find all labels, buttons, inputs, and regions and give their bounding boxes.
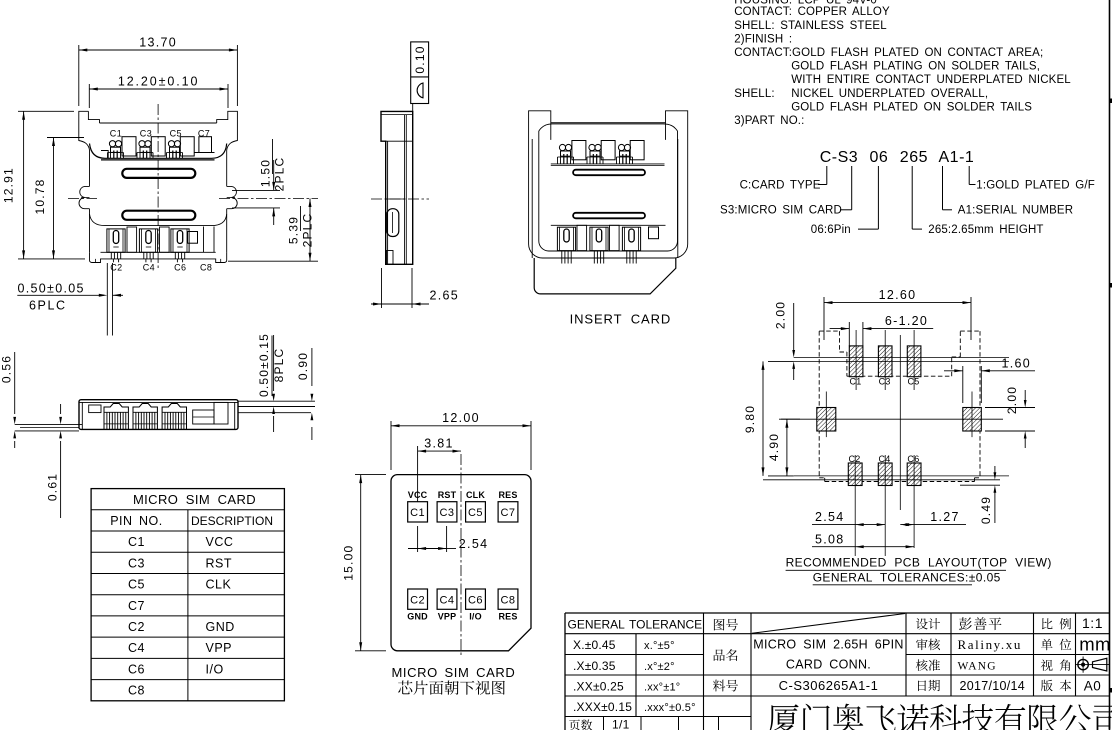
svg-text:C1: C1 [128,535,145,549]
svg-text:12.00: 12.00 [442,411,480,425]
part number leader 06 [858,166,878,229]
dimension 0.90 [296,348,313,440]
svg-text:C3: C3 [439,507,454,519]
text designer [959,617,1001,630]
svg-text:.xxx°±0.5°: .xxx°±0.5° [644,702,696,714]
insert view slot 2 [573,213,645,219]
svg-text:2017/10/14: 2017/10/14 [960,679,1026,693]
dimension 0.49 (pcb) [960,466,1000,524]
svg-text:C1: C1 [850,376,862,386]
svg-text:C2: C2 [849,454,861,464]
svg-text:C8: C8 [200,263,212,273]
label liaohao [713,680,738,692]
svg-text:2.54: 2.54 [815,510,845,524]
svg-text:0.50±0.05: 0.50±0.05 [18,281,85,295]
svg-text:12.20±0.10: 12.20±0.10 [118,75,199,89]
svg-text:6-1.20: 6-1.20 [885,314,928,328]
svg-text:C-S3: C-S3 [820,149,858,166]
svg-text:1/1: 1/1 [612,718,630,730]
dimension 13.70 [79,36,238,107]
part number leader C [818,166,827,185]
svg-text:RST: RST [206,556,233,570]
top view contact C4 [139,229,157,262]
svg-text:265:2.65mm HEIGHT: 265:2.65mm HEIGHT [928,224,1043,236]
label banben [1041,680,1071,692]
svg-text:.x°±2°: .x°±2° [644,661,675,673]
label shenhe [916,639,940,651]
svg-text:3.81: 3.81 [424,437,454,451]
sim card top pads [408,490,518,522]
top view contact C1 [108,141,124,159]
top view housing tab 1 [122,137,136,156]
svg-text:C8: C8 [128,684,145,698]
svg-text:DESCRIPTION: DESCRIPTION [191,514,273,528]
label yeshu [569,719,592,730]
tolerance values [573,638,696,714]
svg-text:06: 06 [870,149,889,166]
top view housing tab 2 [151,137,165,156]
svg-text:VPP: VPP [438,612,457,622]
flatness spec frame [411,42,429,112]
pcb side pad right [963,408,982,432]
pcb pad C3 [878,346,892,386]
sim card outline [391,475,531,651]
top view housing inner edges [90,144,227,226]
svg-text:GND: GND [407,612,428,622]
company name [768,704,1112,730]
dimension 5.39 2PLC [228,199,318,262]
front view right solder tails [238,401,315,413]
dimension 15.00 [341,475,386,651]
svg-text:8PLC: 8PLC [272,348,286,383]
pcb pad C4 [878,454,892,486]
svg-text:CARD CONN.: CARD CONN. [786,658,871,672]
dimension 1.50 2PLC [232,139,287,225]
title block diagonal [752,614,905,634]
label tuhao [714,619,738,631]
svg-text:C3: C3 [128,556,145,570]
top view C8 notch [188,232,198,244]
pin description table [91,489,284,701]
sim card centerline [460,454,462,656]
specification text block [734,0,1071,127]
svg-text:I/O: I/O [206,663,224,677]
insert view contact row bottom 3 [622,227,640,263]
label shijiao [1041,659,1070,670]
dimension 0.56 [0,352,16,448]
svg-text:GOLD FLASH PLATING ON SOLDER T: GOLD FLASH PLATING ON SOLDER TAILS, [791,61,1040,73]
svg-text:C4: C4 [128,641,145,655]
svg-text:1.50: 1.50 [259,159,273,187]
svg-text:C2: C2 [410,595,425,607]
dimension 12.00 [391,411,531,470]
svg-text:1:1: 1:1 [1082,615,1103,631]
dimension 2.00 top left (pcb) [773,301,795,380]
svg-text:I/O: I/O [469,612,482,622]
svg-text:RES: RES [498,490,517,500]
svg-text:C3: C3 [140,128,152,138]
svg-text:S3:MICRO SIM CARD: S3:MICRO SIM CARD [720,204,842,216]
label pinming [714,649,738,661]
label riqi [918,680,940,691]
svg-text:C5: C5 [908,376,920,386]
top view vertical centerline [157,104,159,268]
pcb pad C5 [907,346,921,386]
svg-text:x.°±5°: x.°±5° [644,640,675,652]
dimension 3.81 [418,437,461,502]
insert view contact row top 1 [558,144,574,164]
svg-text:GENERAL TOLERANCE: GENERAL TOLERANCE [568,618,703,632]
top view bottom rib 1 [127,227,137,252]
svg-text:12.91: 12.91 [2,167,16,203]
svg-text:265: 265 [900,149,928,166]
svg-text:SHELL:: SHELL: [734,88,775,100]
svg-text:2PLC: 2PLC [273,157,287,192]
top view horizontal centerline [68,198,318,200]
svg-text:MICRO SIM CARD: MICRO SIM CARD [133,492,256,507]
pcb horizontal centerline [779,418,1003,420]
insert view contact row top 2 [587,144,603,164]
svg-text:C4: C4 [439,595,454,607]
label sheji [916,618,940,629]
dimension 0.50±0.15 8PLC [257,333,286,432]
svg-text:2.00: 2.00 [1005,386,1019,414]
top view contact C6 [171,229,189,262]
svg-text:A1-1: A1-1 [939,149,975,166]
svg-text:C5: C5 [170,128,182,138]
svg-text:1.60: 1.60 [1002,357,1032,371]
svg-text:2)FINISH :: 2)FINISH : [734,33,792,45]
svg-text:GENERAL TOLERANCES:±0.05: GENERAL TOLERANCES:±0.05 [813,571,1001,585]
title block grid [565,613,1110,730]
svg-text:5.39: 5.39 [287,216,301,244]
sheet border line [1109,0,1111,730]
svg-text:2.65: 2.65 [430,289,460,303]
pcb pad C1 [849,346,863,386]
svg-text:MICRO SIM CARD: MICRO SIM CARD [392,665,516,680]
svg-text:VPP: VPP [206,641,233,655]
svg-text:2PLC: 2PLC [301,213,315,248]
svg-text:3)PART NO.:: 3)PART NO.: [734,115,804,127]
top view housing tab 3 [180,137,194,156]
svg-text:C8: C8 [500,595,515,607]
svg-text:WANG: WANG [958,661,997,673]
svg-text:C5: C5 [128,578,145,592]
svg-text:2.54: 2.54 [459,537,489,551]
svg-text:MICRO SIM 2.65H 6PIN: MICRO SIM 2.65H 6PIN [753,638,903,652]
svg-text:10.78: 10.78 [33,178,47,214]
svg-text:13.70: 13.70 [139,36,177,50]
dimension 2.54 (sim) [408,526,488,552]
top view C7 pad step [194,137,214,153]
top view left step [101,151,108,159]
svg-text:06:6Pin: 06:6Pin [811,224,851,236]
top view shell outline [79,111,238,262]
svg-text:WITH ENTIRE CONTACT UNDERPLATE: WITH ENTIRE CONTACT UNDERPLATED NICKEL [791,74,1071,86]
svg-text:.X±0.35: .X±0.35 [573,659,616,673]
top view contact C5 [167,141,183,159]
svg-text:6PLC: 6PLC [29,298,67,312]
front view left solder tails [15,424,82,431]
dimension 1.27 (pcb) [900,510,966,526]
dimension 6-1.20 (pcb) [830,314,934,346]
svg-text:RST: RST [438,490,457,500]
top view slot 2 [122,211,195,220]
top view slot 1 [122,169,195,178]
svg-text:CONTACT:GOLD FLASH PLATED ON C: CONTACT:GOLD FLASH PLATED ON CONTACT ARE… [734,47,1043,59]
side view centerline [371,198,429,200]
svg-text:0.49: 0.49 [979,496,993,524]
front view body [79,400,238,430]
svg-text:C7: C7 [198,128,210,138]
dimension 10.78 [33,138,84,259]
svg-text:.XXX±0.15: .XXX±0.15 [573,700,632,714]
svg-text:C6: C6 [174,263,186,273]
svg-text:A1:SERIAL NUMBER: A1:SERIAL NUMBER [958,204,1073,216]
dimension 2.65 [371,268,459,308]
svg-text:C7: C7 [128,599,145,613]
svg-text:RECOMMENDED PCB LAYOUT(TOP VIE: RECOMMENDED PCB LAYOUT(TOP VIEW) [786,556,1052,570]
svg-text:C7: C7 [500,507,515,519]
part name text [753,638,903,672]
label hezhun [916,659,940,671]
border tick marks [1110,99,1112,693]
part number leader 265 [912,166,922,229]
svg-text:C-S306265A1-1: C-S306265A1-1 [779,678,879,693]
svg-text:0.50±0.15: 0.50±0.15 [257,333,271,397]
pcb vertical centerline [899,335,901,510]
svg-text:C4: C4 [879,454,891,464]
insert view contact row top 3 [617,144,633,164]
svg-text:CLK: CLK [206,578,232,592]
svg-text:C4: C4 [143,263,155,273]
svg-text:0.56: 0.56 [0,355,14,383]
dimension 5.08 (pcb) [812,532,914,548]
dimension 0.61 [45,404,62,518]
pcb caption [786,556,1052,585]
dimension 2.00 right (pcb) [985,386,1035,448]
svg-text:GOLD FLASH PLATED ON SOLDER TA: GOLD FLASH PLATED ON SOLDER TAILS [791,101,1032,113]
top view bottom band base [101,251,216,253]
dimension 0.50±0.05 6PLC [17,263,123,336]
svg-text:C1: C1 [110,128,122,138]
dimension 12.60 (pcb) [824,288,971,340]
svg-text:1:GOLD PLATED G/F: 1:GOLD PLATED G/F [976,179,1095,191]
svg-text:C2: C2 [128,620,145,634]
part number [820,149,975,166]
pcb layout dashed outline [819,331,980,481]
pcb pad stems [826,330,972,556]
insert view contact row bottom 2 [590,227,608,263]
dimension 12.20±0.10 [89,75,228,109]
svg-text:2.00: 2.00 [773,301,787,329]
sim card caption chinese [398,680,505,694]
insert view top tabs [551,141,665,166]
svg-text:4.90: 4.90 [767,433,781,461]
svg-text:A0: A0 [1084,679,1102,694]
dimension 4.90 (pcb) [767,419,800,476]
top view bottom rib 2 [160,227,170,252]
svg-text:C5: C5 [468,507,483,519]
part number leader A1 [943,166,953,210]
svg-text:C6: C6 [468,595,483,607]
side view body [381,111,413,264]
part number leader S3 [840,166,852,210]
top view contact C2 [107,229,125,262]
insert card view shell [529,111,688,294]
label bili [1042,618,1071,629]
svg-text:1.27: 1.27 [930,510,960,524]
insert view contact row bottom 1 [557,227,575,263]
svg-text:C6: C6 [907,454,919,464]
svg-text:CONTACT: COPPER ALLOY: CONTACT: COPPER ALLOY [734,6,890,18]
svg-text:SHELL: STAINLESS STEEL: SHELL: STAINLESS STEEL [734,20,887,32]
pcb side pad left [817,408,836,432]
svg-text:RES: RES [498,612,517,622]
svg-text:.XX±0.25: .XX±0.25 [573,680,624,694]
svg-text:C6: C6 [128,663,145,677]
pcb pad C2 [848,454,862,486]
svg-text:Raliny.xu: Raliny.xu [958,637,1022,652]
svg-text:C3: C3 [879,376,891,386]
top view contact C3 [137,141,153,159]
svg-text:0.61: 0.61 [45,473,59,501]
svg-text:VCC: VCC [206,535,234,549]
insert view slot 1 [573,170,645,176]
svg-text:C:CARD TYPE: C:CARD TYPE [740,179,821,191]
svg-text:15.00: 15.00 [341,545,355,581]
dimension 2.54 (pcb) [812,510,885,526]
projection symbol [1076,657,1110,673]
sim card bottom pads [407,589,518,622]
svg-text:C2: C2 [110,263,122,273]
svg-text:mm: mm [1079,634,1110,655]
svg-text:GND: GND [206,620,235,634]
pcb horizontal lines top [794,358,1009,362]
svg-text:X.±0.45: X.±0.45 [573,638,616,652]
top view right rib [204,227,215,253]
svg-text:12.60: 12.60 [879,288,917,302]
svg-text:INSERT CARD: INSERT CARD [570,312,672,327]
part number leader 1 [969,166,975,185]
svg-text:NICKEL UNDERPLATED OVERALL,: NICKEL UNDERPLATED OVERALL, [791,88,988,100]
pcb pad C6 [907,454,921,486]
dimension 9.80 (pcb) [743,361,794,476]
dimension 12.91 [2,111,86,259]
svg-text:0.90: 0.90 [296,352,310,380]
svg-text:9.80: 9.80 [743,405,757,433]
svg-text:C1: C1 [410,507,425,519]
svg-text:CLK: CLK [466,490,485,500]
svg-text:PIN NO.: PIN NO. [110,514,163,528]
dimension 1.60 (pcb) [944,357,1035,404]
insert view bottom ribs [551,225,666,250]
pcb horizontal lines bottom [763,476,1009,480]
label danwei [1041,639,1071,650]
svg-text:5.08: 5.08 [815,532,845,546]
svg-text:0.10: 0.10 [413,45,427,73]
svg-text:.xx°±1°: .xx°±1° [644,682,680,694]
